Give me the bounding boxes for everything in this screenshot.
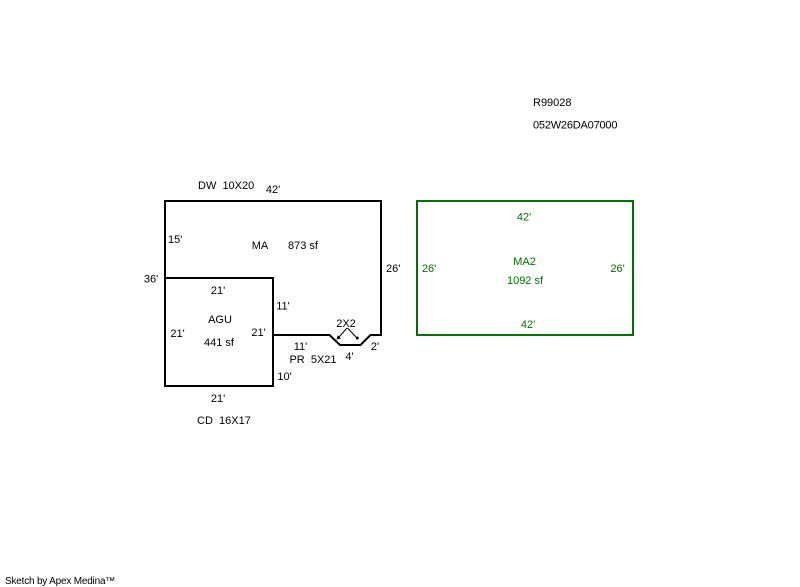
svg-text:AGU: AGU	[208, 314, 232, 326]
svg-text:2': 2'	[371, 341, 379, 353]
svg-text:42': 42'	[517, 212, 531, 224]
svg-text:26': 26'	[386, 263, 400, 275]
svg-text:441 sf: 441 sf	[204, 337, 235, 349]
svg-text:PR 5X21: PR 5X21	[289, 354, 336, 366]
svg-text:21': 21'	[170, 328, 184, 340]
svg-text:36': 36'	[144, 274, 158, 286]
svg-text:26': 26'	[610, 263, 624, 275]
svg-text:42': 42'	[266, 184, 280, 196]
svg-text:1092 sf: 1092 sf	[507, 275, 544, 287]
svg-text:26': 26'	[422, 263, 436, 275]
svg-text:21': 21'	[211, 393, 225, 405]
svg-text:21': 21'	[251, 327, 265, 339]
svg-text:Sketch by Apex Medina™: Sketch by Apex Medina™	[5, 576, 115, 587]
svg-text:MA2: MA2	[513, 256, 536, 268]
svg-text:15': 15'	[168, 234, 182, 246]
svg-text:11': 11'	[294, 341, 308, 353]
svg-text:42': 42'	[521, 319, 535, 331]
svg-text:MA: MA	[252, 240, 269, 252]
svg-text:21': 21'	[211, 285, 225, 297]
svg-text:4': 4'	[345, 351, 353, 363]
svg-text:CD 16X17: CD 16X17	[197, 415, 251, 427]
svg-text:11': 11'	[276, 301, 290, 313]
svg-text:R99028: R99028	[533, 97, 572, 109]
svg-text:052W26DA07000: 052W26DA07000	[533, 120, 617, 132]
svg-text:DW 10X20: DW 10X20	[198, 180, 254, 192]
svg-text:2X2: 2X2	[336, 318, 356, 330]
svg-text:873 sf: 873 sf	[288, 240, 319, 252]
svg-text:10': 10'	[277, 371, 291, 383]
